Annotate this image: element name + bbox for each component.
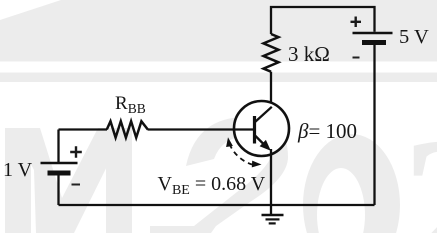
resistor R_BB zigzag <box>107 121 148 137</box>
battery V1 minus plate <box>48 171 71 176</box>
battery V1 plus plate <box>41 162 78 165</box>
wire emitter lead <box>270 149 272 205</box>
svg-text:5 V: 5 V <box>399 26 429 48</box>
dashed loop arc <box>230 144 253 165</box>
wire bottom rail <box>59 204 375 206</box>
watermark top-left white wedge <box>0 0 61 20</box>
watermark letter M <box>5 128 132 233</box>
wire collector lead <box>270 72 272 108</box>
battery V1 lead bottom <box>57 176 59 206</box>
watermark background top band <box>0 0 437 62</box>
svg-text:β= 100: β= 100 <box>297 119 357 143</box>
loop arrowhead up <box>226 137 233 147</box>
battery V2 minus sign <box>353 57 360 59</box>
svg-text:1 V: 1 V <box>3 159 33 181</box>
resistor R1 3 kOhm <box>264 34 279 72</box>
battery V2 plus sign <box>351 17 362 28</box>
svg-text:VBE = 0.68 V: VBE = 0.68 V <box>158 173 266 198</box>
wire base lead right <box>148 128 255 130</box>
wire right side <box>373 45 375 206</box>
transistor Q1 circle <box>234 101 289 156</box>
battery V1 minus sign <box>72 184 81 186</box>
wire top rail <box>271 7 375 34</box>
battery V2 5V plus plate <box>353 32 393 35</box>
ground bar 3 <box>269 222 276 224</box>
ground stub <box>270 205 272 215</box>
ground bar 2 <box>266 218 280 220</box>
battery V2 minus plate <box>362 40 386 45</box>
watermark digit 2 (first) <box>150 117 288 233</box>
loop arrowhead right <box>252 161 262 168</box>
transistor emitter stroke <box>255 136 267 148</box>
ground bar 1 <box>262 214 284 216</box>
svg-text:3 kΩ: 3 kΩ <box>288 42 330 66</box>
transistor collector stroke <box>255 107 272 122</box>
transistor base bar <box>253 116 256 144</box>
wire base lead <box>59 128 108 130</box>
watermark digit 0 <box>303 134 400 240</box>
emitter arrowhead <box>260 140 271 151</box>
svg-text:RBB: RBB <box>115 93 146 116</box>
battery V1 plus sign <box>70 146 82 158</box>
watermark thin gray band <box>0 73 437 83</box>
battery V1 lead top <box>57 130 59 163</box>
svg-text:2: 2 <box>401 97 437 233</box>
